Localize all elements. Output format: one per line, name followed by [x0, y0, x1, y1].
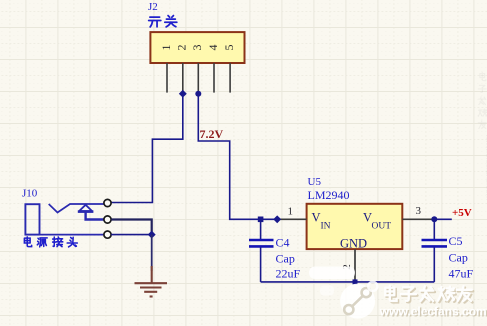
- connector J2 comment 开关 (switch): [149, 16, 177, 27]
- wire from U5 pin 3 to +5V net: [434, 218, 452, 220]
- svg-text:22uF: 22uF: [276, 266, 301, 280]
- wire from J2 pin 3 to regulator input (net 7.2V): [198, 94, 277, 220]
- U5 pin 3 stub: [402, 218, 434, 220]
- watermark logo circle: [309, 267, 377, 319]
- svg-text:Cap: Cap: [276, 252, 295, 266]
- svg-text:4: 4: [206, 45, 220, 51]
- junction at J2 pin 3: [195, 91, 201, 97]
- junction at U5 pin 1: [273, 215, 281, 223]
- svg-text:U5: U5: [308, 176, 322, 188]
- junction at C4 tap: [258, 217, 264, 223]
- power jack J10 comment 电源接头 (power connector): [24, 237, 77, 247]
- svg-text:IN: IN: [321, 222, 331, 232]
- J10 pin 1 circle (tip): [104, 199, 111, 206]
- capacitor C5 plates: [422, 240, 448, 246]
- svg-text:GND: GND: [340, 237, 367, 251]
- regulator U5 body: [307, 204, 403, 249]
- junction at U5 pin 3 / C5 tap: [431, 216, 437, 222]
- capacitor C5 bottom lead wire: [433, 247, 435, 282]
- power jack J10 sleeve line: [40, 234, 104, 236]
- capacitor C5 top lead wire: [433, 219, 435, 239]
- J10 pin 3 circle (sleeve): [104, 231, 111, 238]
- junction at U5 pin 2 and bottom bus: [353, 279, 358, 284]
- U5 pin 1 stub: [277, 218, 306, 220]
- power jack J10 switch arrow contact: [78, 205, 104, 220]
- bottom ground bus wire C4-U5pin2-C5: [261, 281, 435, 283]
- power jack J10 tip spring contact: [49, 204, 104, 213]
- junction at ground node: [148, 231, 156, 239]
- J10 pin 2 circle (switch): [104, 216, 111, 223]
- connector J2 body: [150, 32, 244, 63]
- J2 pin 1 stub: [166, 63, 168, 93]
- U5 pin name VIN: [312, 211, 331, 232]
- watermark text 电子发烧友: [385, 286, 473, 303]
- svg-text:C5: C5: [449, 234, 463, 248]
- svg-text:OUT: OUT: [372, 222, 392, 232]
- J2 pin 4 stub: [213, 63, 215, 93]
- svg-text:www.elecfans.com: www.elecfans.com: [379, 305, 487, 319]
- capacitor C4 top lead wire: [260, 219, 262, 239]
- J2 pin 5 stub: [229, 63, 231, 93]
- J2 pin 3 stub: [197, 63, 199, 94]
- wire from J10 middle pin down to ground node: [111, 220, 152, 235]
- faint right-edge watermark: [478, 72, 487, 200]
- svg-text:2: 2: [175, 45, 189, 51]
- svg-text:J10: J10: [22, 188, 38, 200]
- wire from J10 sleeve pin to ground node: [111, 234, 152, 236]
- svg-text:7.2V: 7.2V: [200, 127, 224, 141]
- svg-text:47uF: 47uF: [449, 266, 474, 280]
- capacitor C4 plates: [249, 240, 274, 246]
- power jack J10 body: [25, 204, 39, 234]
- svg-text:1: 1: [159, 45, 173, 51]
- svg-text:1: 1: [288, 206, 294, 218]
- wire from ground node down to ground symbol: [151, 235, 153, 271]
- svg-text:LM2940: LM2940: [308, 188, 350, 202]
- svg-text:3: 3: [190, 45, 204, 51]
- J2 pin 2 stub: [182, 63, 184, 94]
- svg-text:5: 5: [222, 45, 236, 51]
- capacitor C4 bottom lead wire: [260, 247, 262, 282]
- svg-text:Cap: Cap: [449, 251, 468, 265]
- svg-text:3: 3: [416, 205, 422, 217]
- wire from J2 pin 2 to power jack tip: [111, 94, 183, 203]
- U5 pin 2 stub (GND): [354, 249, 356, 282]
- watermark text www.elecfans.com: [379, 305, 487, 320]
- svg-text:V: V: [312, 211, 321, 225]
- svg-text:+5V: +5V: [452, 207, 472, 219]
- U5 pin name VOUT: [363, 211, 391, 232]
- ground symbol: [135, 266, 168, 297]
- junction at J2 pin 2: [179, 90, 187, 98]
- svg-text:J2: J2: [148, 1, 158, 13]
- svg-text:C4: C4: [276, 236, 290, 250]
